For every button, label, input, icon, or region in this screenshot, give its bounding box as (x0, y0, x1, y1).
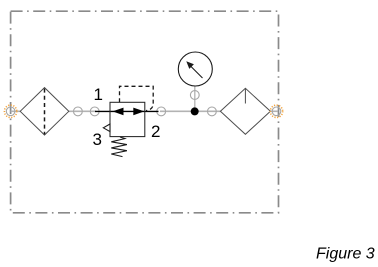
wire gauge stem (194, 86, 196, 108)
regulator R1 right arrowhead (133, 108, 144, 116)
wire port1 to filter (11, 110, 21, 112)
lubricator drip pin (244, 89, 246, 104)
regulator R1 flow line with arrows (95, 110, 159, 112)
enclosure dash-dot border (11, 11, 279, 213)
node circle D (208, 107, 217, 116)
regulator R1 vent triangle (103, 124, 110, 132)
regulator R1 left arrowhead (113, 108, 124, 116)
regulator R1 spring (111, 137, 127, 157)
regulator R1 pilot line (dashed) (120, 86, 154, 110)
regulator R1 body (110, 102, 145, 136)
node circle A (74, 107, 83, 116)
node circle E (gauge branch) (190, 91, 199, 100)
node circle B (90, 107, 99, 116)
filter F1 element (dashed) (44, 89, 46, 135)
lubricator body (220, 88, 270, 134)
pressure gauge G1 needle (191, 67, 203, 79)
wire regulator outlet to junction to lubricator (160, 110, 221, 112)
node circle C (157, 107, 166, 116)
junction node (black dot) (191, 107, 199, 115)
svg-text:Figure 3: Figure 3 (316, 246, 375, 263)
port 1 (left, highlighted) (6, 107, 15, 116)
pressure gauge G1 dial (178, 52, 212, 86)
svg-text:3: 3 (93, 130, 102, 149)
svg-text:1: 1 (94, 85, 103, 104)
wire lubricator to port2 (270, 110, 277, 112)
port 2 (right, highlighted) (272, 107, 281, 116)
filter F1 body (20, 88, 69, 135)
wire filter to regulator (69, 110, 97, 112)
svg-text:2: 2 (151, 122, 160, 141)
